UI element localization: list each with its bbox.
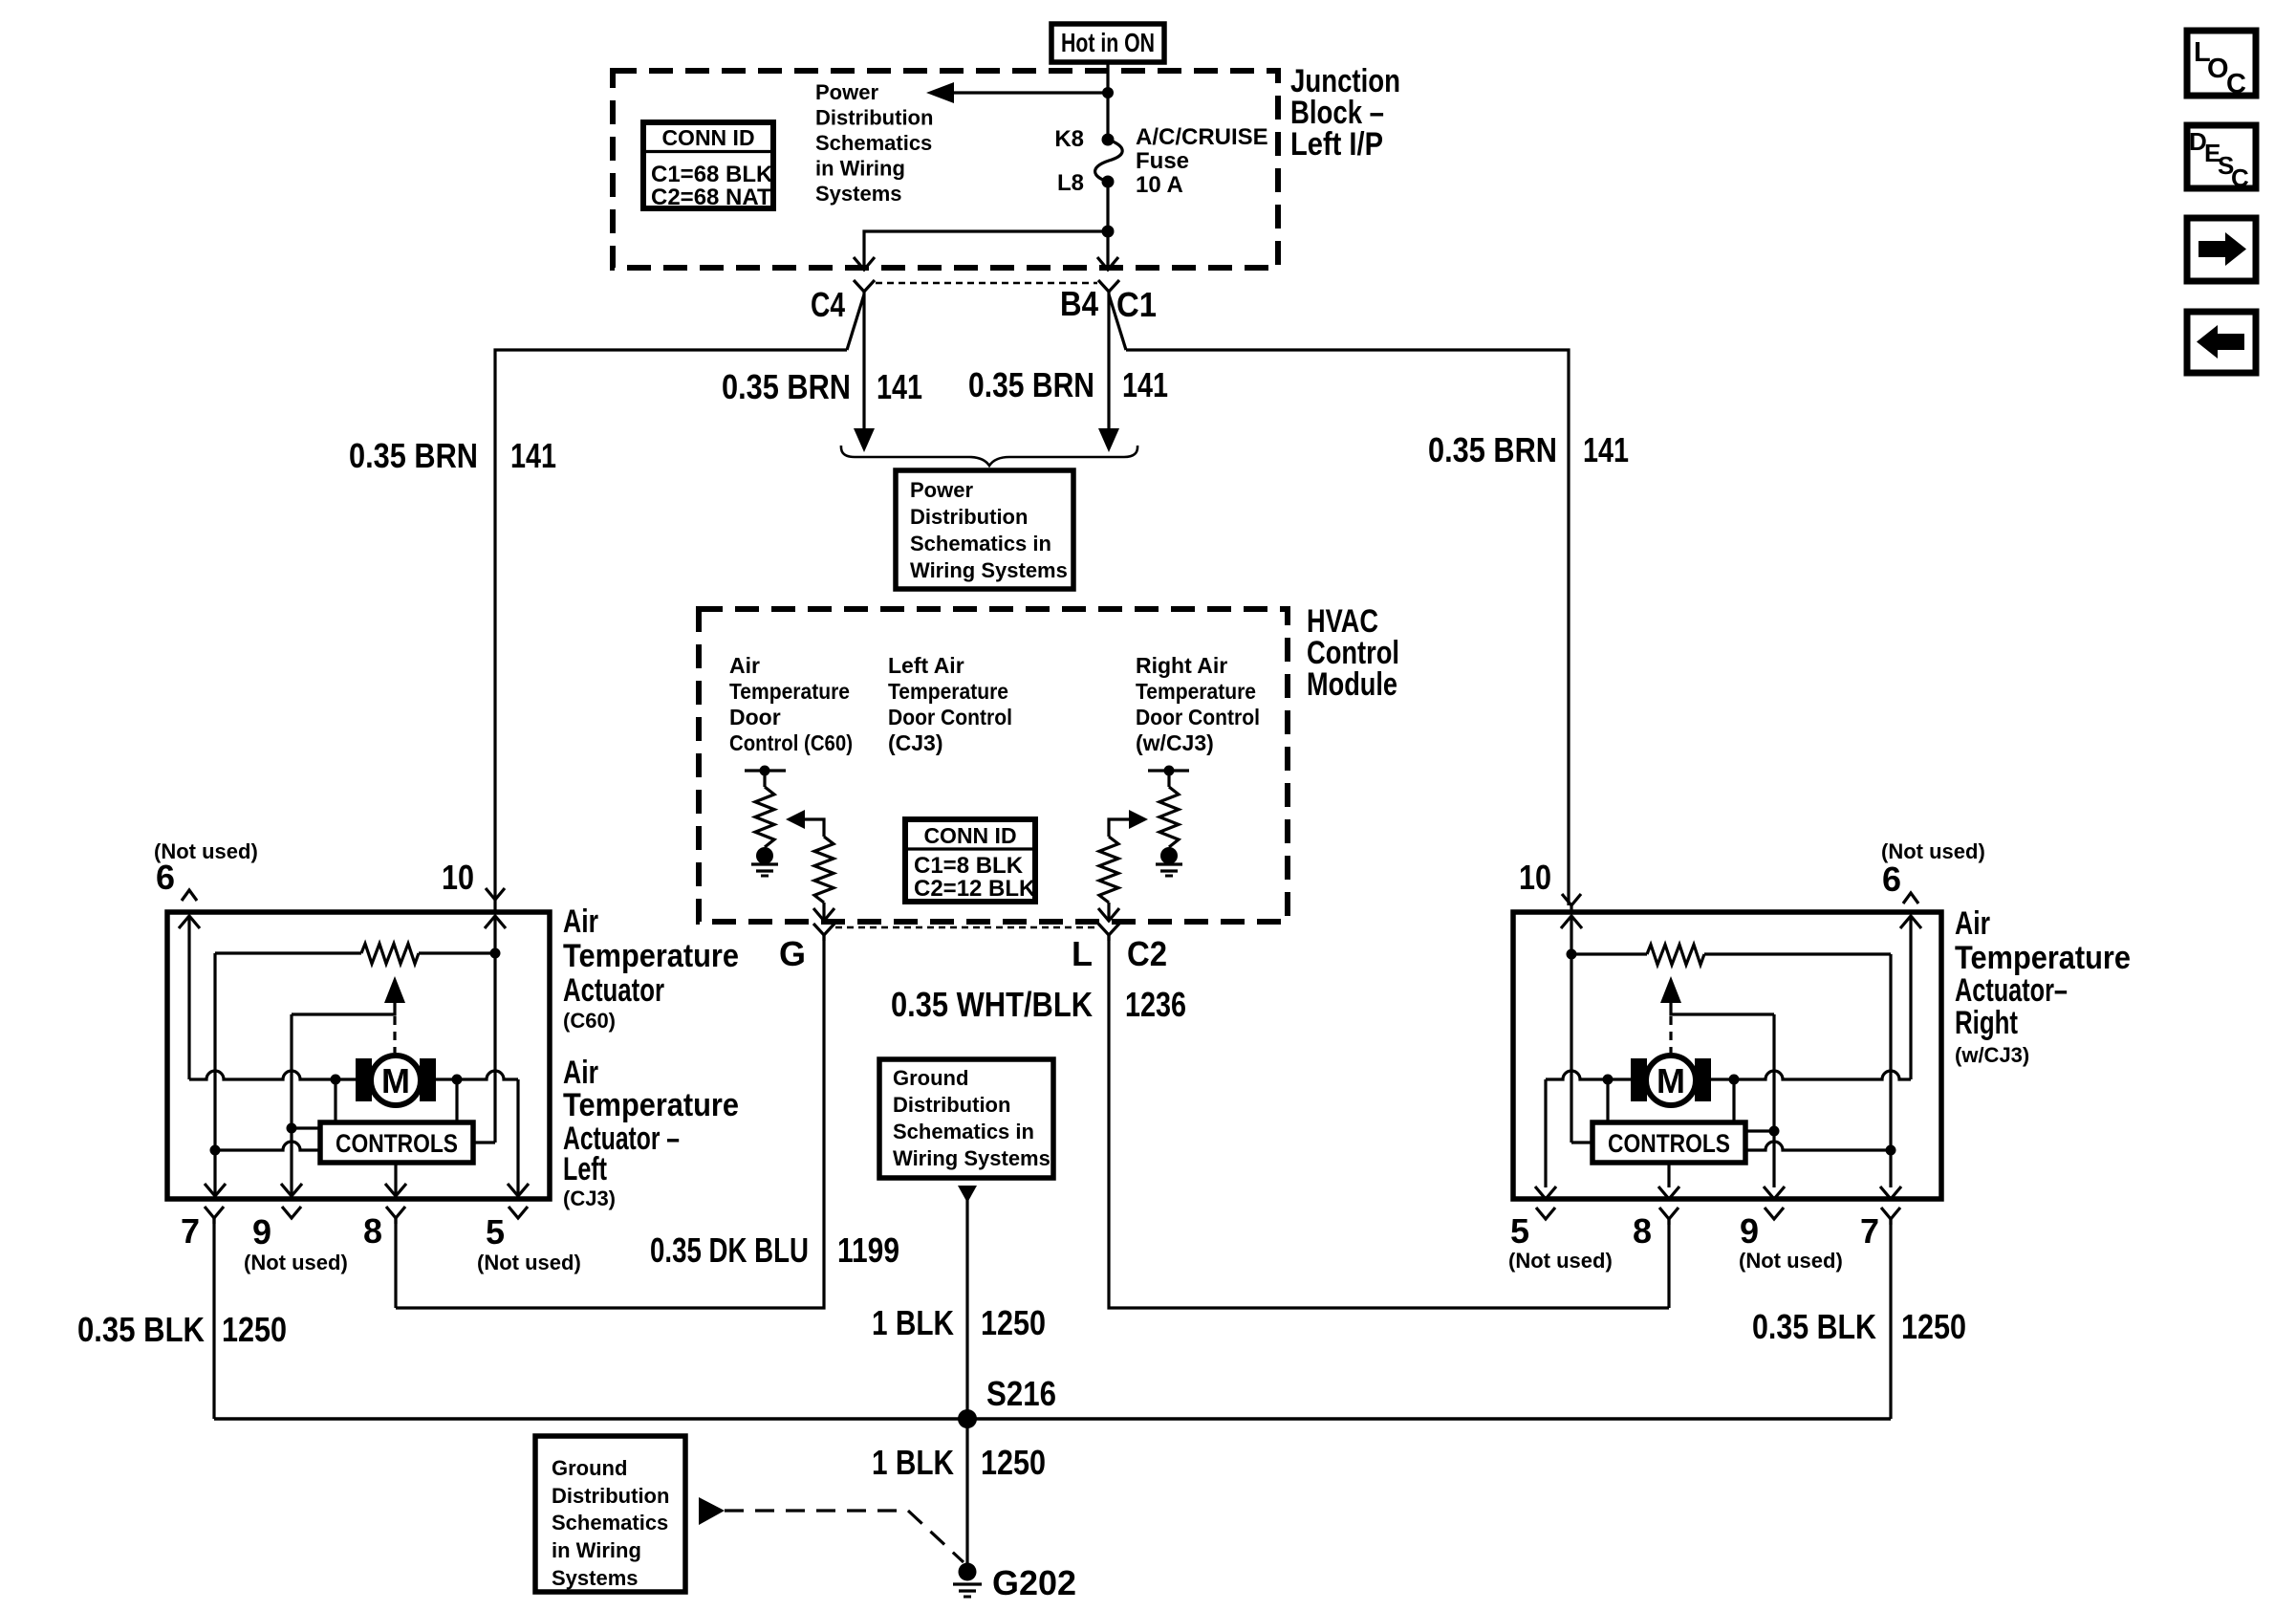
svg-text:Temperature: Temperature [888, 679, 1008, 704]
feedback resistor left actuator [215, 944, 495, 964]
right pot wiper dot [1160, 847, 1178, 864]
motor M right actuator [1631, 1056, 1711, 1105]
svg-text:M: M [1657, 1061, 1685, 1100]
pin 10 internal arrow and wire right [1561, 916, 1582, 1143]
wire branch to C4 [864, 231, 1108, 269]
node pin7 controls [210, 1145, 221, 1156]
connector chevron pin 5 bottom [509, 1207, 528, 1218]
svg-text:0.35 BRN: 0.35 BRN [968, 365, 1094, 404]
node K8 [1102, 134, 1115, 146]
svg-text:CONN ID: CONN ID [661, 125, 754, 150]
svg-text:141: 141 [877, 367, 922, 406]
svg-text:1250: 1250 [981, 1303, 1046, 1342]
svg-text:in Wiring: in Wiring [552, 1538, 641, 1562]
wire C2 to right actuator pin 8 (0.35 WHT/BLK 1236) [1109, 935, 1669, 1308]
Hot in ON box [1051, 24, 1164, 62]
pot right wire down to pin 7 right [1889, 954, 1892, 1187]
svg-text:(w/CJ3): (w/CJ3) [1955, 1043, 2029, 1067]
wire C4 down to brace [862, 297, 865, 430]
wire B4 down to brace [1107, 297, 1110, 430]
svg-text:Distribution: Distribution [910, 505, 1028, 529]
svg-text:C2: C2 [1127, 934, 1167, 973]
motor right lead with crossover to pin 5 [436, 1071, 518, 1195]
svg-text:(Not used): (Not used) [244, 1251, 348, 1274]
svg-text:Left: Left [563, 1151, 607, 1187]
wire G to left actuator pin 8 (0.35 DK BLU 1199) [396, 935, 824, 1308]
svg-text:Distribution: Distribution [552, 1484, 669, 1508]
svg-text:Schematics: Schematics [815, 131, 932, 155]
wire pin 7 to ground bus (0.35 BLK 1250) [212, 1218, 215, 1419]
svg-text:Temperature: Temperature [563, 1087, 739, 1123]
right wiper arrow and resistor to pin L [1099, 810, 1148, 920]
right actuator labels [1955, 905, 2131, 1067]
svg-text:Air: Air [1955, 905, 1990, 942]
wire pin 7 right to ground bus (0.35 BLK 1250) [1889, 1219, 1892, 1419]
svg-text:8: 8 [1633, 1211, 1652, 1251]
svg-text:Distribution: Distribution [815, 106, 933, 130]
underbrace [841, 446, 1137, 466]
ground right pot [1156, 864, 1182, 876]
connector chevron pin 10 right [1562, 894, 1581, 912]
node motor right to controls right actuator [1729, 1075, 1740, 1123]
pin 6 internal arrow and wire [179, 916, 200, 1079]
connector chevron pin 10 left [486, 888, 505, 912]
svg-text:(CJ3): (CJ3) [563, 1186, 616, 1210]
wire S216 to G202 (1 BLK 1250) [965, 1419, 968, 1568]
svg-text:0.35 BRN: 0.35 BRN [722, 367, 851, 406]
connector chevron pin 8 bottom [386, 1207, 405, 1224]
svg-text:7: 7 [1860, 1211, 1879, 1251]
node motor right to controls [452, 1075, 463, 1123]
connector chevron pin 9 bottom [282, 1207, 301, 1218]
svg-text:Schematics in: Schematics in [893, 1120, 1034, 1143]
node resistor pin10 [490, 948, 501, 959]
node branch [1102, 226, 1115, 238]
svg-text:Door Control: Door Control [1136, 705, 1260, 729]
svg-text:6: 6 [1882, 860, 1901, 899]
controls lower-right link with crossover [1745, 1142, 1891, 1150]
label left air temperature door control CJ3 [888, 653, 1012, 755]
feedback resistor right actuator [1571, 945, 1891, 965]
svg-text:1199: 1199 [837, 1230, 899, 1270]
arrowhead pin 5 internal right [1535, 1186, 1556, 1199]
svg-text:Temperature: Temperature [1136, 679, 1256, 704]
svg-text:141: 141 [1583, 430, 1629, 469]
svg-text:C2=68 NAT: C2=68 NAT [651, 185, 771, 210]
svg-text:(C60): (C60) [563, 1009, 616, 1033]
svg-text:10 A: 10 A [1136, 172, 1183, 198]
svg-text:0.35 BLK: 0.35 BLK [77, 1310, 205, 1349]
svg-text:Air: Air [729, 653, 760, 678]
svg-text:Distribution: Distribution [893, 1093, 1010, 1117]
svg-text:1 BLK: 1 BLK [872, 1443, 954, 1482]
svg-text:1250: 1250 [1901, 1307, 1966, 1346]
HVAC control module dashed box [699, 609, 1288, 922]
svg-text:Ground: Ground [893, 1066, 968, 1090]
svg-text:Hot in ON: Hot in ON [1061, 28, 1155, 57]
svg-text:(Not used): (Not used) [1508, 1249, 1613, 1273]
CONTROLS box right actuator [1592, 1122, 1745, 1163]
dashed pointer to G202 [725, 1511, 964, 1562]
motor left lead with crossovers [189, 1071, 356, 1079]
svg-text:(Not used): (Not used) [477, 1251, 581, 1274]
arrowhead pin L [1098, 908, 1119, 921]
arrow from ground dist box [958, 1186, 977, 1203]
connector pin G [813, 924, 834, 941]
svg-text:Systems: Systems [815, 182, 902, 206]
svg-text:Schematics: Schematics [552, 1511, 668, 1535]
label air temperature door control C60 [729, 653, 853, 755]
wiper mechanical dashed link [393, 1016, 396, 1053]
svg-text:Actuator–: Actuator– [1955, 972, 2068, 1009]
arrowhead pin 7 internal [205, 1184, 226, 1196]
right potentiometer [1148, 766, 1189, 848]
wire hot to fuse [1106, 62, 1109, 140]
wire to S216 (1 BLK 1250) [965, 1199, 968, 1419]
svg-text:141: 141 [1122, 365, 1168, 404]
svg-text:10: 10 [442, 858, 474, 897]
wiper mechanical dashed link right [1669, 1016, 1672, 1053]
CONTROLS box left actuator [320, 1122, 473, 1163]
svg-text:Door Control: Door Control [888, 705, 1012, 729]
svg-text:(w/CJ3): (w/CJ3) [1136, 730, 1214, 755]
svg-text:Door: Door [729, 705, 781, 729]
svg-text:CONTROLS: CONTROLS [336, 1129, 458, 1158]
svg-text:Wiring Systems: Wiring Systems [910, 558, 1068, 582]
svg-text:Fuse: Fuse [1136, 148, 1189, 174]
svg-text:L: L [1072, 934, 1093, 973]
pot left wire down to pin 7 [213, 953, 216, 1195]
svg-text:Control (C60): Control (C60) [729, 730, 853, 755]
svg-text:G202: G202 [992, 1563, 1076, 1602]
motor left lead with crossover to pin 5 right actuator [1546, 1071, 1631, 1187]
ground left pot [751, 864, 778, 876]
svg-text:9: 9 [252, 1212, 271, 1252]
svg-text:5: 5 [486, 1212, 505, 1252]
connector chevron pin 7 bottom right [1881, 1208, 1900, 1225]
connector chevron pin 6 left [182, 890, 197, 901]
pin 9 wire wiper feed [290, 1014, 292, 1195]
svg-text:Temperature: Temperature [1955, 940, 2131, 976]
node pin7 controls right [1886, 1145, 1896, 1156]
in-line connector dashed link [876, 282, 1097, 284]
left pot wiper dot [756, 847, 773, 864]
pin 10 internal arrow and wire [485, 916, 506, 1143]
svg-text:5: 5 [1510, 1211, 1529, 1251]
C2 connector dashed link [835, 926, 1097, 928]
svg-text:1236: 1236 [1125, 985, 1186, 1024]
pin 6 internal arrow and wire right [1900, 916, 1921, 1079]
svg-text:C: C [2226, 69, 2246, 99]
ground G202 symbol [953, 1563, 982, 1598]
motor right lead with crossovers right actuator [1711, 1071, 1911, 1079]
svg-text:1250: 1250 [222, 1310, 287, 1349]
arrowhead into C4 [854, 257, 875, 270]
arrowhead pin G [813, 908, 834, 921]
icon LOC [2187, 31, 2256, 99]
CONN ID table junction block [643, 122, 773, 210]
svg-text:9: 9 [1740, 1211, 1759, 1251]
svg-text:C1: C1 [1116, 285, 1157, 324]
svg-text:0.35 BLK: 0.35 BLK [1752, 1307, 1876, 1346]
svg-text:CONN ID: CONN ID [923, 823, 1016, 848]
wiper arrow right actuator [1660, 976, 1774, 1014]
svg-text:0.35 DK BLU: 0.35 DK BLU [650, 1230, 809, 1270]
splice S216 [958, 1409, 977, 1428]
svg-text:C: C [2231, 163, 2249, 192]
svg-text:Wiring Systems: Wiring Systems [893, 1146, 1051, 1170]
svg-text:Left I/P: Left I/P [1290, 126, 1383, 163]
svg-text:Module: Module [1307, 666, 1397, 703]
svg-text:Schematics in: Schematics in [910, 532, 1051, 555]
icon DESC [2187, 125, 2256, 192]
arrow to power distribution schematics [926, 82, 1108, 103]
svg-text:141: 141 [510, 436, 556, 475]
node pin9 controls [287, 1123, 297, 1134]
svg-text:Systems: Systems [552, 1566, 639, 1590]
ground bus wire [214, 1417, 1891, 1420]
wire C1 to right actuator pin 10 (0.35 BRN 141) [1109, 294, 1569, 905]
controls upper-right link [1745, 1129, 1774, 1132]
svg-text:Temperature: Temperature [729, 679, 850, 704]
connector chevron pin 7 bottom [205, 1207, 224, 1224]
connector B4/C1 [1098, 280, 1119, 297]
svg-text:G: G [779, 934, 806, 973]
wire pin 8 right to C2 wire [1667, 1219, 1670, 1308]
svg-text:CONTROLS: CONTROLS [1608, 1129, 1730, 1158]
arrowhead into B4 [1097, 257, 1118, 270]
connector pin L C2 [1098, 924, 1119, 941]
svg-text:L8: L8 [1057, 170, 1084, 196]
svg-text:Ground: Ground [552, 1456, 627, 1480]
arrowhead down left [854, 428, 875, 452]
svg-text:Power: Power [910, 478, 973, 502]
controls to pin10 link right [1571, 1141, 1592, 1143]
left wiper arrow and resistor to pin G [786, 810, 834, 920]
svg-text:Air: Air [563, 1055, 598, 1091]
arrowhead down right [1098, 428, 1119, 452]
svg-text:Left Air: Left Air [888, 653, 964, 678]
icon arrow left [2187, 312, 2256, 373]
power distribution note [815, 80, 933, 206]
svg-text:0.35 WHT/BLK: 0.35 WHT/BLK [891, 985, 1093, 1024]
svg-text:Actuator: Actuator [563, 972, 664, 1009]
connector chevron pin 8 bottom right [1659, 1208, 1679, 1225]
svg-text:Air: Air [563, 903, 598, 940]
left potentiometer [745, 766, 786, 848]
pin 8 wire from controls [394, 1163, 397, 1195]
connector C4 [854, 280, 875, 297]
svg-text:S216: S216 [986, 1374, 1056, 1413]
node motor left to controls right actuator [1603, 1075, 1614, 1123]
svg-text:(Not used): (Not used) [1739, 1249, 1843, 1273]
svg-text:in Wiring: in Wiring [815, 157, 905, 181]
svg-text:0.35 BRN: 0.35 BRN [1428, 430, 1557, 469]
pin 9 wire wiper feed right [1772, 1014, 1775, 1187]
controls lower-left link with crossover [215, 1142, 320, 1150]
ground distribution schematics box bottom left [535, 1436, 685, 1592]
HVAC control module label [1307, 603, 1399, 703]
left actuator box [167, 912, 550, 1199]
svg-text:8: 8 [363, 1211, 382, 1251]
wire pin 8 to G wire [394, 1218, 397, 1308]
arrowhead pin 8 internal [385, 1184, 406, 1196]
connector chevron pin 9 bottom right [1765, 1208, 1784, 1219]
left actuator labels [563, 903, 739, 1210]
node motor left to controls [331, 1075, 341, 1123]
svg-text:0.35 BRN: 0.35 BRN [349, 436, 478, 475]
svg-text:M: M [381, 1061, 410, 1100]
svg-text:7: 7 [181, 1211, 200, 1251]
right actuator box [1513, 912, 1941, 1199]
arrow from bottom-left ground box [699, 1497, 725, 1525]
wire fuse to branch [1106, 182, 1109, 269]
arrowhead pin 5 internal [508, 1184, 529, 1196]
arrowhead pin 9 internal right [1764, 1186, 1785, 1199]
fuse A/C/CRUISE 10A [1095, 140, 1123, 182]
svg-text:C1=8 BLK: C1=8 BLK [914, 853, 1024, 879]
wiper arrow left actuator [292, 976, 405, 1014]
controls upper-left link [292, 1126, 320, 1129]
fuse value label [1136, 124, 1268, 198]
icon arrow right [2187, 218, 2256, 281]
svg-text:A/C/CRUISE: A/C/CRUISE [1136, 124, 1268, 150]
connector chevron pin 6 right [1903, 893, 1918, 903]
svg-text:B4: B4 [1060, 284, 1098, 323]
svg-text:K8: K8 [1054, 126, 1084, 152]
junction block dashed box [613, 71, 1278, 268]
svg-text:(CJ3): (CJ3) [888, 730, 943, 755]
wire C4 to left actuator pin 10 (0.35 BRN 141) [495, 294, 864, 900]
svg-text:1250: 1250 [981, 1443, 1046, 1482]
node arrow branch [1102, 87, 1114, 98]
svg-text:Right Air: Right Air [1136, 653, 1227, 678]
connector chevron pin 5 bottom right [1536, 1208, 1555, 1219]
svg-text:10: 10 [1519, 858, 1551, 897]
svg-text:C1=68 BLK: C1=68 BLK [651, 162, 773, 187]
svg-text:Power: Power [815, 80, 878, 104]
label right air temperature door control w/CJ3 [1136, 653, 1260, 755]
junction block label [1290, 63, 1400, 163]
arrowhead pin 7 internal right [1880, 1186, 1901, 1199]
arrowhead pin 8 internal right [1658, 1186, 1679, 1199]
motor M left actuator [356, 1056, 436, 1105]
svg-text:Temperature: Temperature [563, 938, 739, 974]
svg-text:C2=12 BLK: C2=12 BLK [914, 876, 1036, 902]
node resistor pin10 right [1567, 949, 1577, 960]
svg-text:1 BLK: 1 BLK [872, 1303, 954, 1342]
controls to pin10 link [473, 1141, 495, 1143]
pin 8 wire from controls right [1667, 1163, 1670, 1187]
arrowhead pin 9 internal [281, 1184, 302, 1196]
node pin9 controls right [1769, 1126, 1780, 1137]
svg-text:Right: Right [1955, 1005, 2018, 1041]
ground distribution schematics box center [879, 1059, 1053, 1178]
svg-text:C4: C4 [811, 285, 845, 324]
svg-text:6: 6 [156, 858, 175, 897]
node L8 [1102, 176, 1115, 188]
CONN ID table HVAC [905, 819, 1036, 902]
power distribution schematics box [896, 470, 1073, 589]
